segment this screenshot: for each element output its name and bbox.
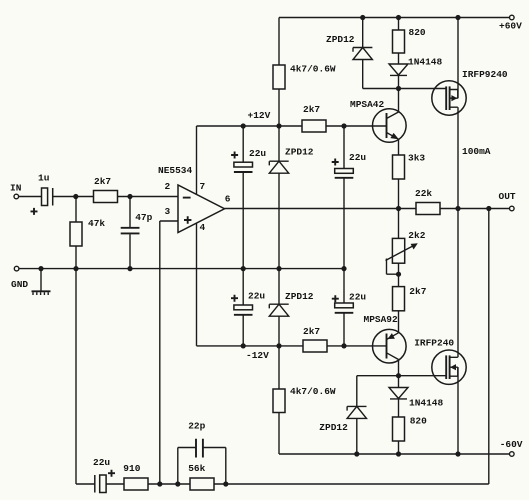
wire diode to 820 [398, 399, 400, 417]
wire 22u to GND branch [76, 269, 95, 484]
svg-text:1N4148: 1N4148 [409, 397, 444, 408]
wire 2k7 to MPSA92 emitter [398, 311, 400, 333]
resistor 2k7 -12V rail [303, 326, 327, 352]
label 100mA [462, 146, 491, 157]
node -60V rail at 820 [396, 451, 401, 456]
wire 22u to GND [242, 173, 244, 269]
svg-text:ZPD12: ZPD12 [326, 34, 355, 45]
node -12V at 22u right [341, 343, 346, 348]
mosfet IRFP240 [414, 337, 466, 384]
wire GND to zener bottom [278, 269, 280, 305]
wire MPSA92 collector to gate junction [398, 360, 400, 388]
node top rail junction at mosfet [455, 15, 460, 20]
svg-text:22u: 22u [349, 152, 366, 163]
node top rail junction at zener [360, 15, 365, 20]
node output at mosfet [455, 206, 460, 211]
wire 4k7 to +12V node and zener [278, 89, 280, 161]
terminal GND [11, 266, 28, 290]
node GND at 47k [73, 266, 78, 271]
svg-text:56k: 56k [188, 463, 205, 474]
wire IN to 1u [19, 196, 42, 198]
wire 820 top feed [398, 18, 400, 31]
node GND at 279 [276, 266, 281, 271]
svg-text:ZPD12: ZPD12 [319, 422, 348, 433]
wire op-amp pin3 feedback [160, 221, 178, 484]
svg-text:4k7/0.6W: 4k7/0.6W [290, 64, 336, 75]
node input shunt [73, 194, 78, 199]
svg-text:2k7: 2k7 [409, 286, 426, 297]
wire 47p to GND [129, 234, 131, 268]
mosfet IRFP9240 [432, 69, 508, 115]
node +12V at 22u right [341, 123, 346, 128]
resistor 820 bottom [393, 416, 428, 441]
wire 2k7 to MPSA92 base [327, 345, 387, 347]
wire diode to gate junction [398, 75, 400, 88]
wire +60V rail [279, 17, 510, 19]
node top rail junction at 820 [396, 15, 401, 20]
wire zener to gate line top [363, 60, 447, 89]
node GND at 22u right [341, 266, 346, 271]
node feedback at 22p [175, 481, 180, 486]
wire op-amp output line [225, 208, 417, 210]
svg-text:22k: 22k [415, 188, 432, 199]
resistor 47k [70, 197, 105, 247]
zener diode ZPD12 mid-bottom [269, 291, 314, 316]
svg-text:820: 820 [410, 416, 427, 427]
node -12V at 279 [276, 343, 281, 348]
resistor 2k7 +12V rail [302, 104, 326, 132]
resistor 820 top [393, 27, 426, 53]
wire -60V rail [279, 453, 510, 455]
wire +60V feed down left chain [278, 18, 280, 66]
wire 56k to pin3 node [148, 483, 190, 485]
resistor 2k7 input [94, 176, 118, 203]
resistor 3k3 [393, 153, 426, 180]
zener diode ZPD12 mid-top [269, 147, 314, 174]
wire gate junction down to MPSA42 collector [387, 89, 399, 119]
capacitor 22u feedback [93, 457, 124, 493]
svg-text:7: 7 [200, 181, 206, 192]
diode 1N4148 bottom [389, 388, 444, 409]
wire 4k7 bottom to -60V rail corner [278, 413, 280, 455]
svg-text:910: 910 [123, 463, 140, 474]
node +12V at 279 [276, 123, 281, 128]
node feedback at pin3 [157, 481, 162, 486]
node gate junction top [396, 86, 401, 91]
wire op-amp pin4 to -12V rail [197, 224, 304, 346]
svg-text:22u: 22u [248, 291, 265, 302]
wire 820 to -60V rail [398, 441, 400, 454]
terminal -60V [500, 439, 523, 456]
terminal +60V [499, 15, 522, 31]
trimmer 2k2 [386, 209, 426, 275]
node output at trimmer [396, 206, 401, 211]
svg-text:22u: 22u [349, 292, 366, 303]
wire 22k to OUT [440, 208, 510, 210]
node GND at 22u left [241, 266, 246, 271]
wire 3k3 to output line [398, 179, 400, 209]
wire mosfet drain to output line [457, 107, 459, 357]
node gate junction bottom [396, 373, 401, 378]
wire +60V to mosfet source [457, 18, 459, 99]
wire zener to GND [278, 173, 280, 268]
transistor MPSA92 [364, 314, 407, 363]
wire 2k7 to op-amp pin2 [118, 196, 179, 198]
svg-text:+60V: +60V [499, 20, 522, 31]
svg-text:2k2: 2k2 [408, 230, 425, 241]
wire op-amp pin7 to +12V rail [197, 126, 303, 195]
resistor 4k7/0.6W bottom [273, 386, 336, 413]
svg-text:MPSA42: MPSA42 [350, 99, 385, 110]
ground symbol [32, 269, 51, 295]
svg-text:47p: 47p [135, 212, 152, 223]
wire mosfet source to -60V rail [457, 367, 459, 454]
svg-text:IRFP240: IRFP240 [414, 337, 454, 348]
svg-text:ZPD12: ZPD12 [285, 291, 314, 302]
label +12V [248, 110, 271, 121]
svg-text:2k7: 2k7 [303, 104, 320, 115]
wire gate line bottom [357, 375, 446, 377]
zener diode ZPD12 bottom [319, 376, 366, 433]
wire 1u to 2k7 [53, 196, 94, 198]
resistor 910 [123, 463, 148, 490]
wire 22u right to -12V rail [343, 313, 345, 346]
svg-text:1N4148: 1N4148 [408, 56, 443, 67]
svg-text:IRFP9240: IRFP9240 [462, 69, 508, 80]
wire -12V node down to 4k7 bottom [278, 346, 280, 389]
svg-text:IN: IN [10, 183, 22, 194]
wire trimmer bottom [398, 263, 400, 286]
resistor 4k7/0.6W top [273, 64, 336, 89]
svg-text:47k: 47k [88, 218, 105, 229]
wire zener to -12V node [278, 316, 280, 346]
node GND at ground symbol [38, 266, 43, 271]
svg-text:22u: 22u [93, 457, 110, 468]
node output at feedback [486, 206, 491, 211]
node 47p top [127, 194, 132, 199]
terminal IN [10, 183, 22, 199]
svg-text:OUT: OUT [499, 191, 516, 202]
wire GND rail [19, 268, 344, 270]
node -60V rail at zener [354, 451, 359, 456]
svg-text:1u: 1u [38, 173, 50, 184]
node +12V at 22u left [241, 123, 246, 128]
svg-text:2k7: 2k7 [94, 176, 111, 187]
wire 820 to diode [398, 53, 400, 64]
transistor MPSA42 [350, 99, 406, 142]
svg-text:-12V: -12V [246, 350, 269, 361]
svg-text:3: 3 [165, 206, 171, 217]
svg-text:-60V: -60V [500, 439, 523, 450]
resistor 2k7 vertical bottom [393, 286, 427, 311]
capacitor 22p [178, 421, 226, 484]
svg-text:820: 820 [409, 27, 426, 38]
zener diode ZPD12 top right [326, 18, 372, 60]
wire zener to -60V rail [356, 418, 358, 454]
svg-text:2k7: 2k7 [303, 326, 320, 337]
svg-text:+12V: +12V [248, 110, 271, 121]
svg-text:NE5534: NE5534 [158, 165, 193, 176]
capacitor 47p [121, 197, 153, 234]
terminal OUT [499, 191, 516, 211]
diode 1N4148 top [389, 56, 443, 75]
svg-text:6: 6 [225, 194, 231, 205]
capacitor 22u +12V right [332, 126, 367, 178]
capacitor 22u -12V right [332, 269, 367, 313]
svg-text:22u: 22u [249, 148, 266, 159]
svg-text:4: 4 [200, 222, 206, 233]
wire feedback from OUT [214, 209, 489, 485]
node -60V rail at mosfet [455, 451, 460, 456]
wire MPSA42 emitter to 3k3 [398, 139, 400, 155]
svg-text:4k7/0.6W: 4k7/0.6W [290, 386, 336, 397]
capacitor 22u -12V left [231, 269, 265, 315]
capacitor 1u input [31, 173, 53, 215]
resistor 22k [415, 188, 440, 214]
resistor 56k [188, 463, 214, 490]
wire 47k to GND [75, 246, 77, 269]
wire 22u to -12V rail [242, 315, 244, 346]
wire 2k7 to MPSA42 base [326, 125, 387, 127]
wire 22u right to GND [343, 178, 345, 268]
node feedback at 56k right [223, 481, 228, 486]
node GND at 47p [127, 266, 132, 271]
node trimmer wiper [396, 272, 401, 277]
svg-text:22p: 22p [188, 421, 205, 432]
capacitor 22u +12V left [231, 126, 266, 172]
label -12V [246, 350, 269, 361]
svg-text:2: 2 [165, 181, 171, 192]
op-amp NE5534 [158, 165, 231, 233]
svg-text:3k3: 3k3 [408, 153, 425, 164]
svg-text:GND: GND [11, 279, 28, 290]
svg-text:ZPD12: ZPD12 [285, 147, 314, 158]
svg-text:MPSA92: MPSA92 [364, 314, 399, 325]
svg-text:100mA: 100mA [462, 146, 491, 157]
node -12V at 22u left [241, 343, 246, 348]
